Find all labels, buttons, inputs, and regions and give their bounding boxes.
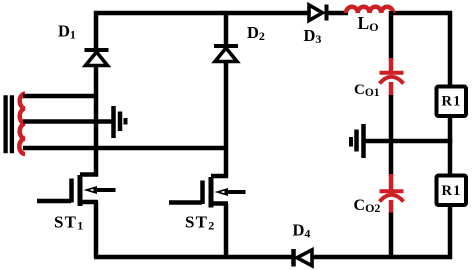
inductor Lo — [346, 7, 393, 13]
wire left vertical top (to D1) — [94, 11, 99, 50]
wire top left horizontal — [94, 11, 311, 16]
diode D1 — [85, 50, 109, 66]
wire mid vertical top (to D2) — [224, 11, 229, 46]
diode D3 — [309, 5, 327, 21]
wire R1 bottom to bottom wire — [448, 205, 453, 259]
svg-text:R1: R1 — [442, 94, 462, 110]
resistor R1 bottom — [437, 176, 467, 206]
wire top between D3 and Lo — [325, 11, 348, 16]
capacitor Co1 — [380, 58, 404, 96]
wire ground stub to right branch — [363, 139, 452, 144]
transformer winding (red coil) — [19, 94, 25, 155]
diode D2 — [214, 46, 238, 62]
transformer core bars — [3, 95, 7, 153]
diode D4 — [294, 249, 313, 267]
resistor R1 top — [437, 87, 467, 117]
transistor ST1 — [37, 175, 116, 207]
wire tap top — [23, 94, 98, 99]
wire ST2 source down — [224, 204, 229, 259]
wire left vertical mid — [94, 66, 99, 177]
ground left — [114, 106, 126, 138]
wire between stub and R1 bottom — [448, 139, 453, 175]
wire mid vertical — [224, 62, 229, 179]
svg-text:R1: R1 — [442, 183, 462, 199]
wire top right after Lo — [391, 11, 452, 16]
transistor ST2 — [169, 176, 246, 208]
wire right branch top — [448, 11, 453, 86]
wire below Co2 — [389, 213, 394, 260]
capacitor Co2 — [380, 174, 404, 214]
wire bottom right — [311, 255, 452, 260]
wire bottom left — [94, 255, 292, 260]
ground right — [351, 124, 364, 158]
wire ST1 source down — [94, 202, 99, 258]
wire between R1 top and stub — [448, 116, 453, 143]
wire tap bottom — [23, 146, 228, 151]
wire tap middle — [23, 119, 112, 124]
wire between Co1 and junction — [389, 95, 394, 176]
capacitor branch: wire top — [389, 11, 394, 60]
